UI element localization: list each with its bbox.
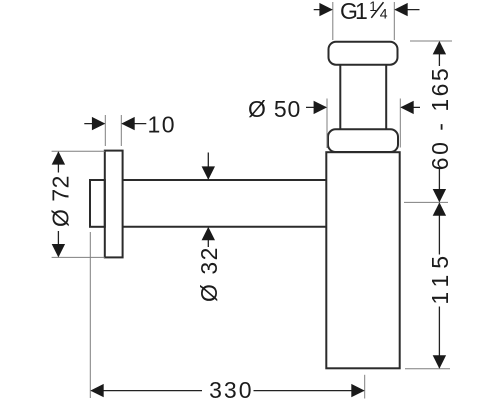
svg-text:1: 1	[355, 0, 368, 24]
svg-text:115: 115	[427, 250, 453, 305]
svg-text:60 - 165: 60 - 165	[427, 66, 453, 170]
svg-text:10: 10	[148, 111, 177, 137]
svg-text:Ø 32: Ø 32	[196, 246, 222, 302]
svg-text:4: 4	[380, 6, 388, 22]
svg-text:Ø 72: Ø 72	[48, 175, 74, 227]
svg-text:330: 330	[209, 377, 253, 400]
svg-text:Ø 50: Ø 50	[248, 96, 301, 122]
